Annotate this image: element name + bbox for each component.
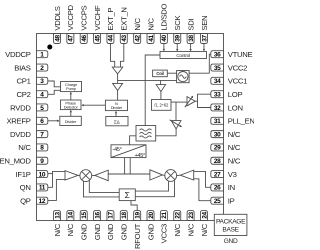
svg-text:23: 23 (188, 212, 195, 219)
svg-text:VCCPS: VCCPS (80, 5, 89, 30)
wire divider to phase detector (70, 110, 72, 116)
pin 17 (GND) bottom (106, 211, 115, 241)
input amp A1 (Q channel) (65, 171, 78, 181)
svg-text:N/C: N/C (200, 223, 209, 236)
wire IN input (194, 171, 211, 187)
wire M1 output a to summer (84, 181, 120, 197)
svg-text:N/C: N/C (228, 143, 241, 152)
wire VGA1 to LOP (195, 94, 211, 101)
pin 43 (EXT_N) top (120, 7, 129, 43)
svg-text:QN: QN (20, 183, 31, 192)
svg-text:17: 17 (108, 212, 115, 219)
svg-text:N/C: N/C (228, 130, 241, 139)
svg-text:IF1P: IF1P (16, 170, 31, 179)
wire phase detector to charge pump (70, 92, 72, 100)
svg-text:39: 39 (175, 35, 182, 42)
svg-text:VCCHF: VCCHF (93, 5, 102, 31)
svg-text:11: 11 (39, 185, 46, 192)
buffer amp A5 (external LO input) (112, 67, 123, 74)
N divider block (105, 100, 127, 110)
package base GND pad (214, 214, 247, 245)
pin 47 (VCCPD) top (66, 4, 75, 43)
svg-text:LON: LON (228, 103, 243, 112)
svg-text:28: 28 (214, 158, 221, 165)
wire filter to phase splitter (130, 136, 136, 145)
pin 23 (N/C) bottom (186, 211, 195, 237)
svg-text:33: 33 (214, 91, 221, 98)
mixer M1 (Q) (80, 170, 92, 182)
IC package outline U1 (37, 34, 224, 221)
wire A3 to mixer M2 (163, 174, 165, 177)
pin 39 (SCK) top (173, 15, 182, 44)
svg-text:18: 18 (121, 212, 128, 219)
wire VCO to VTUNE (189, 54, 211, 73)
svg-text:VCC3: VCC3 (160, 224, 169, 243)
polyphase filter block (136, 126, 156, 142)
svg-text:25: 25 (214, 198, 221, 205)
svg-text:SEN: SEN (200, 16, 209, 31)
pin 31 (PLL_EN) right (211, 117, 255, 126)
wire buffer to LO bus (117, 74, 119, 84)
wire VGA2 to filter (156, 129, 176, 136)
svg-text:19: 19 (134, 212, 141, 219)
VGA U3 (modulator LO amp) (170, 120, 182, 129)
pin 21 (VCC3) bottom (160, 211, 169, 244)
wire coil to VCO (167, 72, 176, 74)
pin 20 (GND) bottom (146, 211, 155, 241)
wire M2 to A4 (177, 174, 181, 176)
svg-text:SDI: SDI (186, 19, 195, 31)
pin 9 (EN_MOD) left (0, 157, 48, 166)
svg-text:27: 27 (214, 171, 221, 178)
svg-text:47: 47 (68, 35, 75, 42)
svg-text:VCC1: VCC1 (228, 77, 247, 86)
wire EXT_N to buffer (121, 44, 124, 68)
wire control to modulator filter (145, 55, 160, 126)
svg-text:N/C: N/C (18, 143, 31, 152)
svg-text:SCK: SCK (173, 15, 182, 31)
pin 29 (N/C) right (211, 143, 241, 152)
svg-text:GND: GND (224, 238, 238, 245)
wire QN input (48, 171, 65, 187)
LO amp A2 (Q) (95, 170, 108, 181)
wire EXT_P to buffer (110, 44, 114, 68)
svg-text:BASE: BASE (222, 226, 239, 233)
VGA U2 (LO output amp) (185, 96, 196, 108)
phase detector block (61, 100, 82, 110)
svg-text:20: 20 (148, 212, 155, 219)
svg-text:N/C: N/C (186, 223, 195, 236)
pin 12 (QP) left (20, 197, 48, 206)
svg-text:LD/SDO: LD/SDO (160, 3, 169, 30)
wire M2 output a to summer (135, 181, 168, 191)
svg-text:31: 31 (214, 118, 221, 125)
LO output divider block /1, 2-62 (152, 100, 172, 111)
svg-text:Divider: Divider (111, 105, 123, 110)
svg-text:42: 42 (134, 35, 141, 42)
svg-text:Coil: Coil (156, 71, 163, 76)
svg-text:46: 46 (81, 35, 88, 42)
svg-text:IP: IP (228, 197, 235, 206)
wire serial pin 40 to control (163, 44, 165, 52)
pin 28 (N/C) right (211, 157, 241, 166)
pin 44 (EXT_P) top (106, 8, 115, 44)
svg-text:36: 36 (214, 52, 221, 59)
pin 14 (N/C) bottom (66, 211, 75, 237)
svg-text:RVDD: RVDD (10, 103, 31, 112)
wire serial pin 39 to control (176, 44, 178, 52)
svg-text:RFOUT: RFOUT (133, 223, 142, 249)
wire LO to VGA2 (175, 102, 177, 121)
svg-text:37: 37 (201, 35, 208, 42)
wire XREFP to divider (48, 120, 59, 122)
pin 25 (IP) right (211, 197, 235, 206)
phase splitter block -45/+45 (111, 145, 146, 159)
svg-text:BIAS: BIAS (14, 63, 30, 72)
pin 48 (VDDLS) top (53, 6, 62, 43)
sigma-delta modulator block (106, 117, 128, 126)
svg-text:/1, 2÷62: /1, 2÷62 (154, 103, 169, 108)
svg-text:N/C: N/C (53, 223, 62, 236)
svg-text:Σ: Σ (125, 190, 130, 200)
svg-text:EXT_N: EXT_N (120, 7, 129, 30)
svg-text:DVDD: DVDD (10, 130, 31, 139)
svg-text:GND: GND (80, 223, 89, 240)
svg-text:LOP: LOP (228, 90, 243, 99)
svg-text:Divider: Divider (65, 119, 77, 124)
reference divider block (60, 116, 82, 125)
pin 5 (RVDD) left (10, 103, 48, 112)
wire A6 to N divider (117, 91, 119, 101)
LO bus to quad mixers (108, 173, 150, 175)
svg-text:40: 40 (161, 35, 168, 42)
svg-text:21: 21 (161, 212, 168, 219)
svg-text:45: 45 (94, 35, 101, 42)
svg-text:N/C: N/C (228, 157, 241, 166)
wire VGA1 to LON (198, 101, 211, 107)
pin 30 (N/C) right (211, 130, 241, 139)
pin 13 (N/C) bottom (53, 211, 62, 237)
svg-text:26: 26 (214, 185, 221, 192)
svg-text:GND: GND (106, 223, 115, 240)
control logic block (160, 52, 207, 59)
wire splitter +45 out (129, 158, 131, 174)
svg-text:22: 22 (175, 212, 182, 219)
pin 3 (CP1) left (17, 77, 48, 86)
buffer amp A6 (to N divider) (113, 83, 123, 90)
LO amp A3 (I) (150, 170, 163, 180)
pin 33 (LOP) right (211, 90, 243, 99)
wire sigma-delta to N divider (115, 111, 117, 117)
svg-text:EXT_P: EXT_P (106, 8, 115, 31)
svg-text:44: 44 (108, 35, 115, 42)
svg-text:41: 41 (148, 35, 155, 42)
pin 26 (IN) right (211, 183, 235, 192)
svg-text:35: 35 (214, 65, 221, 72)
wire IF1P input (48, 173, 53, 175)
wire LO bus to divider amp (160, 80, 162, 84)
svg-text:34: 34 (214, 78, 221, 85)
svg-text:CP1: CP1 (17, 77, 31, 86)
wire N divider to phase detector (81, 104, 105, 106)
wire IP input (194, 179, 211, 201)
svg-text:VTUNE: VTUNE (228, 50, 253, 59)
svg-text:XREFP: XREFP (6, 117, 30, 126)
svg-text:GND: GND (120, 223, 129, 240)
svg-text:16: 16 (94, 212, 101, 219)
pin 37 (SEN) top (200, 16, 209, 44)
pin 15 (GND) bottom (80, 211, 89, 241)
pin 16 (GND) bottom (93, 211, 102, 241)
svg-text:GND: GND (146, 223, 155, 240)
wire A7 to LO output divider (160, 92, 162, 100)
coil block (153, 70, 168, 77)
VCO oscillator (177, 71, 190, 83)
wire QP input (48, 180, 65, 201)
pin 24 (N/C) bottom (200, 211, 209, 237)
pin 34 (VCC1) right (211, 77, 247, 86)
wire LO bus to VCO (118, 79, 177, 81)
pin 11 (QN) left (20, 183, 48, 192)
svg-text:24: 24 (201, 212, 208, 219)
svg-text:-45°: -45° (112, 147, 121, 153)
svg-text:15: 15 (81, 212, 88, 219)
input amp A4 (I channel) (180, 170, 193, 180)
pin 10 (IF1P) left (16, 170, 48, 179)
wire summer to RFOUT (131, 201, 137, 211)
svg-text:PLL_EN: PLL_EN (228, 117, 254, 126)
charge pump block (61, 82, 82, 92)
svg-text:ΣΔ: ΣΔ (114, 119, 120, 124)
svg-text:43: 43 (121, 35, 128, 42)
svg-text:Pump: Pump (66, 86, 77, 91)
wire serial pin 38 to control (189, 44, 191, 52)
pin 38 (SDI) top (186, 19, 195, 44)
svg-text:VCCPD: VCCPD (66, 4, 75, 30)
pin 4 (CP2) left (17, 90, 48, 99)
svg-text:IN: IN (228, 183, 235, 192)
pin 1 indicator dot (47, 45, 52, 50)
svg-text:N/C: N/C (146, 18, 155, 31)
wire serial pin 37 to control (203, 44, 205, 52)
wire divider to VGA1 (171, 101, 187, 103)
pin 19 (RFOUT) bottom (133, 211, 142, 249)
svg-text:QP: QP (20, 197, 31, 206)
amp A7 (LO divider driver) (156, 85, 165, 92)
svg-text:N/C: N/C (133, 18, 142, 31)
svg-text:Control: Control (176, 53, 190, 58)
svg-text:30: 30 (214, 131, 221, 138)
pin 7 (DVDD) left (10, 130, 48, 139)
svg-text:10: 10 (39, 171, 46, 178)
wire M1 to A2 (92, 175, 95, 177)
pin 32 (LON) right (211, 103, 243, 112)
pin 46 (VCCPS) top (80, 5, 89, 43)
svg-text:N/C: N/C (173, 223, 182, 236)
svg-text:VDDLS: VDDLS (53, 6, 62, 30)
pin 22 (N/C) bottom (173, 211, 182, 237)
svg-text:+45°: +45° (134, 153, 145, 159)
wire CP1 to charge pump (48, 81, 61, 87)
pin 27 (V3) right (211, 170, 237, 179)
summer block (119, 189, 135, 201)
svg-text:29: 29 (214, 145, 221, 152)
wire M2 output b to summer (135, 180, 174, 196)
pin 36 (VTUNE) right (211, 50, 253, 59)
pin 35 (VCC2) right (211, 63, 247, 72)
svg-text:V3: V3 (228, 170, 237, 179)
svg-text:EN_MOD: EN_MOD (0, 157, 31, 166)
svg-text:32: 32 (214, 105, 221, 112)
pin 1 (VDDCP) left (5, 50, 48, 59)
pin 40 (LD/SDO) top (160, 3, 169, 43)
svg-text:VCC2: VCC2 (228, 63, 247, 72)
svg-text:13: 13 (54, 212, 61, 219)
wire M1 output b to summer (89, 180, 119, 192)
pin 45 (VCCHF) top (93, 5, 102, 43)
svg-text:GND: GND (93, 223, 102, 240)
pin 8 (N/C) left (18, 143, 48, 152)
wire CP2 to charge pump (48, 90, 61, 94)
svg-text:Detector: Detector (64, 105, 79, 110)
svg-text:48: 48 (54, 35, 61, 42)
mixer M2 (I) (165, 170, 177, 182)
pin 41 (N/C) top (146, 18, 155, 44)
wire splitter -45 out (124, 158, 126, 174)
svg-text:PACKAGE: PACKAGE (216, 218, 246, 225)
svg-text:14: 14 (68, 212, 75, 219)
pin 18 (GND) bottom (120, 211, 129, 241)
svg-text:VDDCP: VDDCP (5, 50, 31, 59)
svg-text:CP2: CP2 (17, 90, 31, 99)
pin 42 (N/C) top (133, 18, 142, 44)
svg-text:N/C: N/C (66, 223, 75, 236)
pin 6 (XREFP) left (6, 117, 47, 126)
wire A1 to mixer M1 (78, 174, 80, 176)
svg-text:38: 38 (188, 35, 195, 42)
svg-text:12: 12 (39, 198, 46, 205)
pin 2 (BIAS) left (14, 63, 48, 72)
